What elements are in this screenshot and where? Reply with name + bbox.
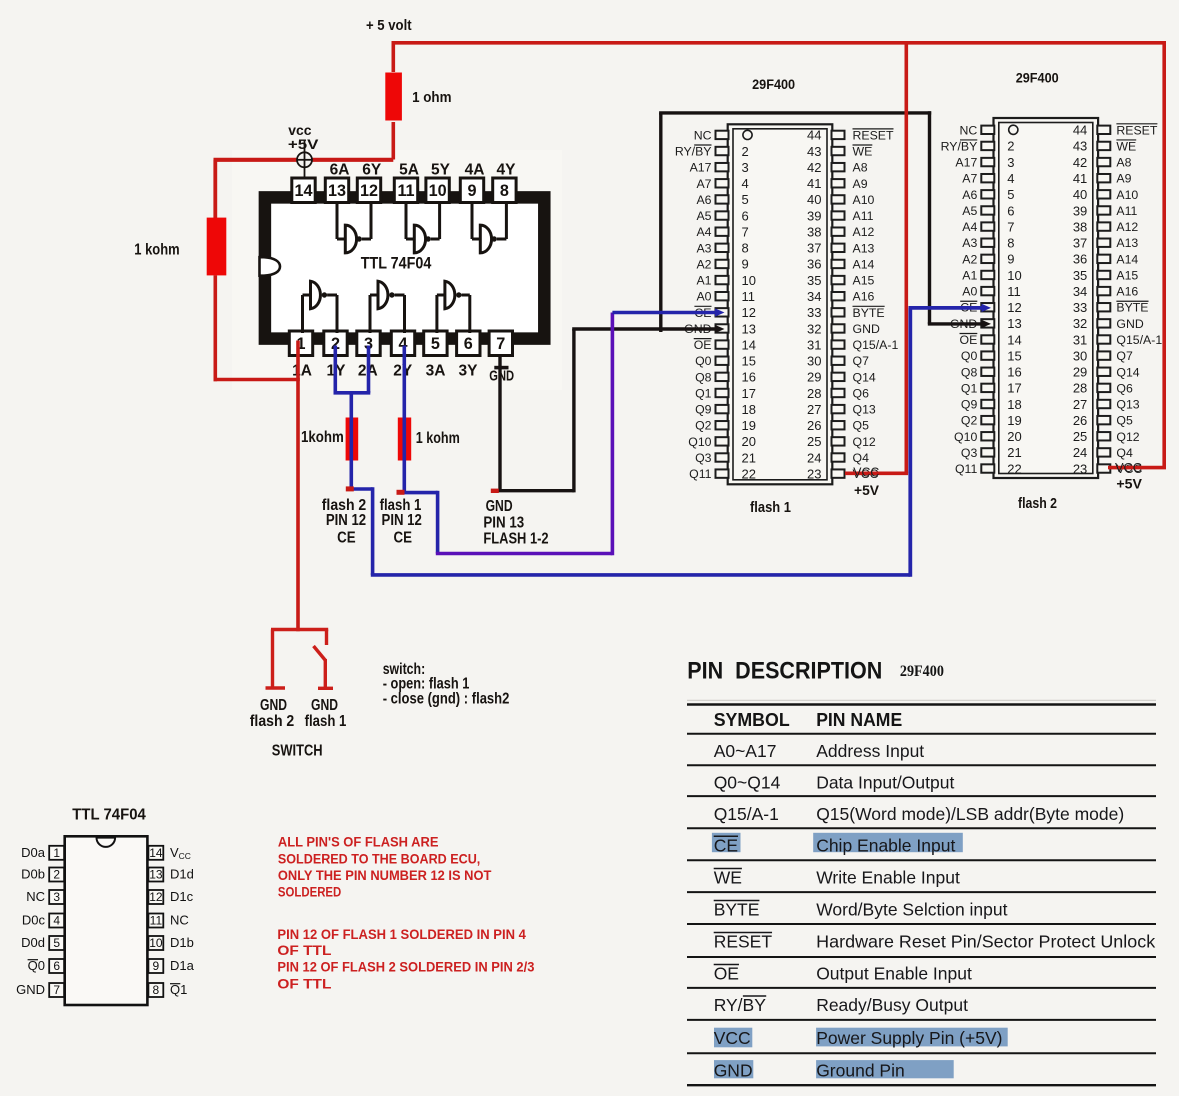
wire GND down right of flash1 — [928, 111, 931, 324]
svg-text:D0b: D0b — [21, 867, 45, 882]
svg-text:21: 21 — [1007, 445, 1021, 460]
svg-text:20: 20 — [1007, 429, 1021, 444]
svg-text:44: 44 — [1073, 123, 1087, 138]
svg-text:A1: A1 — [962, 268, 977, 282]
U1 bottom pin boxes — [289, 331, 512, 356]
resistor R4 1 kohm body — [398, 418, 411, 461]
svg-text:RESET: RESET — [714, 932, 773, 952]
svg-text:Hardware Reset Pin/Sector Prot: Hardware Reset Pin/Sector Protect Unlock — [816, 932, 1155, 952]
svg-text:TTL 74F04: TTL 74F04 — [361, 255, 432, 273]
svg-text:38: 38 — [807, 224, 821, 239]
svg-text:GND: GND — [1116, 317, 1143, 331]
U3 flash2 right pin numbers 44-23 — [1073, 123, 1087, 477]
svg-text:A15: A15 — [1116, 268, 1138, 282]
svg-text:7: 7 — [742, 224, 749, 239]
svg-text:29F400: 29F400 — [752, 76, 795, 92]
svg-text:13: 13 — [1007, 316, 1021, 331]
svg-text:26: 26 — [1073, 413, 1087, 428]
svg-text:Q15/A-1: Q15/A-1 — [714, 804, 779, 824]
svg-text:20: 20 — [742, 434, 756, 449]
svg-text:Q5: Q5 — [1116, 414, 1133, 428]
label GND flash 1 — [305, 697, 347, 730]
svg-text:A17: A17 — [690, 161, 712, 175]
svg-text:A0: A0 — [696, 290, 711, 304]
svg-text:A4: A4 — [696, 225, 711, 239]
U2 flash1 right pin boxes — [832, 131, 845, 478]
svg-text:Q0: Q0 — [28, 958, 45, 973]
wire flash2-CE down — [371, 487, 375, 575]
U1 top pin numbers 14-8 — [294, 182, 508, 200]
wire flash1-CE horizontal jog — [404, 491, 437, 495]
svg-text:24: 24 — [1073, 445, 1087, 460]
wire flash2-CE horizontal jog — [351, 487, 372, 491]
svg-text:Q12: Q12 — [853, 435, 876, 449]
svg-text:A7: A7 — [696, 177, 711, 191]
svg-text:VCC: VCC — [853, 465, 879, 480]
wire TTL pin2 down — [333, 346, 337, 393]
svg-text:Q14: Q14 — [853, 370, 876, 384]
svg-text:SWITCH: SWITCH — [272, 743, 323, 760]
wire TTL pin7 GND down — [498, 356, 501, 491]
svg-text:27: 27 — [1073, 397, 1087, 412]
svg-text:18: 18 — [742, 402, 756, 417]
svg-text:Q15/A-1: Q15/A-1 — [853, 338, 899, 352]
svg-text:OE: OE — [714, 964, 739, 984]
node red tick flash2-CE — [346, 486, 354, 491]
svg-text:13: 13 — [742, 321, 756, 336]
U4 body — [65, 836, 148, 1005]
svg-text:19: 19 — [742, 418, 756, 433]
wire +5V into R1 — [391, 43, 395, 72]
svg-text:A3: A3 — [696, 241, 711, 255]
svg-text:A9: A9 — [1116, 172, 1131, 186]
svg-text:28: 28 — [807, 386, 821, 401]
table header SYMBOL PIN NAME — [714, 710, 903, 730]
svg-text:CE: CE — [337, 530, 356, 547]
svg-text:Word/Byte Selction input: Word/Byte Selction input — [816, 900, 1007, 920]
svg-text:Chip Enable Input: Chip Enable Input — [816, 835, 955, 855]
svg-text:D0c: D0c — [22, 913, 46, 928]
svg-text:30: 30 — [807, 354, 821, 369]
U2 flash1 inner body — [733, 129, 827, 480]
wire join down through R3 — [349, 393, 353, 489]
svg-text:BYTE: BYTE — [1116, 301, 1148, 315]
svg-text:OF TTL: OF TTL — [277, 976, 331, 991]
svg-text:32: 32 — [1073, 316, 1087, 331]
table highlight GND row — [714, 1060, 753, 1078]
wire down to switch — [296, 380, 300, 632]
svg-text:11: 11 — [150, 914, 163, 928]
U4 right pin labels — [170, 845, 195, 997]
svg-text:12: 12 — [149, 890, 163, 904]
svg-text:12: 12 — [1007, 300, 1021, 315]
svg-text:2: 2 — [53, 868, 60, 882]
svg-text:34: 34 — [807, 289, 821, 304]
svg-text:NC: NC — [694, 128, 712, 142]
svg-text:A11: A11 — [853, 209, 874, 223]
svg-text:5: 5 — [431, 335, 440, 353]
svg-text:OE: OE — [694, 338, 712, 352]
svg-text:Q14: Q14 — [1116, 365, 1139, 379]
svg-text:Ground Pin: Ground Pin — [816, 1061, 905, 1081]
svg-text:18: 18 — [1007, 397, 1021, 412]
svg-text:Q11: Q11 — [689, 467, 711, 481]
U4 Q1 overline — [170, 983, 180, 985]
svg-text:34: 34 — [1073, 284, 1087, 299]
U2 flash1 right pin numbers 44-23 — [807, 128, 821, 482]
svg-text:30: 30 — [1073, 348, 1087, 363]
wire flash2-CE long horizontal — [371, 573, 911, 577]
svg-text:23: 23 — [1073, 461, 1087, 476]
wire flash1-CE up purple — [611, 313, 615, 556]
svg-text:flash 1: flash 1 — [750, 500, 791, 516]
svg-text:A2: A2 — [696, 257, 711, 271]
svg-text:2: 2 — [742, 144, 749, 159]
svg-text:SOLDERED: SOLDERED — [278, 884, 342, 899]
svg-text:10: 10 — [742, 273, 756, 288]
svg-text:CE: CE — [714, 835, 738, 855]
svg-text:31: 31 — [1073, 332, 1087, 347]
svg-text:WE: WE — [1116, 139, 1136, 153]
svg-text:CE: CE — [394, 530, 413, 547]
U2 flash1 left pin labels — [675, 128, 712, 481]
svg-text:A10: A10 — [1116, 188, 1138, 202]
wire R1 down — [391, 122, 395, 160]
svg-text:Data Input/Output: Data Input/Output — [816, 772, 954, 792]
svg-text:Q1: Q1 — [695, 386, 712, 400]
svg-text:GND: GND — [260, 697, 287, 714]
U4 notch — [97, 838, 116, 847]
U2 flash1 pin 1 index circle — [743, 130, 752, 139]
wire VCC flash1 vertical — [904, 43, 908, 474]
svg-text:A5: A5 — [962, 204, 977, 218]
svg-text:A10: A10 — [853, 193, 875, 207]
svg-text:Ready/Busy Output: Ready/Busy Output — [816, 995, 968, 1015]
svg-text:SYMBOL: SYMBOL — [714, 710, 790, 730]
svg-text:35: 35 — [807, 273, 821, 288]
svg-text:A16: A16 — [1116, 285, 1138, 299]
svg-text:GND: GND — [489, 368, 514, 385]
svg-text:flash 1: flash 1 — [305, 713, 347, 730]
svg-text:43: 43 — [807, 144, 821, 159]
svg-text:A3: A3 — [962, 236, 977, 250]
IC U3 flash2 29F400 outer body — [994, 118, 1099, 478]
svg-text:9: 9 — [1007, 252, 1014, 267]
svg-text:37: 37 — [807, 241, 821, 256]
svg-text:26: 26 — [807, 418, 821, 433]
table rules — [687, 734, 1156, 1054]
svg-text:35: 35 — [1073, 268, 1087, 283]
svg-text:Q1: Q1 — [170, 982, 187, 997]
svg-text:A13: A13 — [853, 241, 875, 255]
svg-text:4: 4 — [1007, 171, 1014, 186]
table highlight VCC row — [714, 1028, 752, 1048]
svg-text:Q15/A-1: Q15/A-1 — [1116, 333, 1162, 347]
svg-text:VCC: VCC — [714, 1028, 751, 1048]
svg-text:GND: GND — [311, 697, 338, 714]
svg-text:39: 39 — [807, 208, 821, 223]
svg-text:+ 5 volt: + 5 volt — [366, 17, 412, 34]
svg-text:Q2: Q2 — [695, 419, 712, 433]
svg-text:14: 14 — [1007, 332, 1021, 347]
svg-text:D0a: D0a — [21, 845, 46, 860]
svg-text:GND: GND — [714, 1061, 753, 1081]
svg-text:15: 15 — [1007, 348, 1021, 363]
svg-text:5: 5 — [1007, 187, 1014, 202]
svg-text:ALL PIN'S OF FLASH ARE: ALL PIN'S OF FLASH ARE — [278, 835, 439, 850]
svg-text:Q8: Q8 — [961, 365, 978, 379]
svg-text:A9: A9 — [853, 177, 868, 191]
svg-text:Q3: Q3 — [961, 446, 978, 460]
svg-text:A4: A4 — [962, 220, 977, 234]
table symbol overlines — [714, 836, 772, 996]
svg-text:5: 5 — [742, 192, 749, 207]
svg-text:42: 42 — [1073, 155, 1087, 170]
U1 inverter gate bottom 3 — [437, 281, 470, 333]
svg-text:14: 14 — [149, 846, 163, 860]
U4 right pin numbers 14-8 — [149, 846, 163, 997]
svg-text:5Y: 5Y — [431, 162, 451, 179]
svg-text:17: 17 — [1007, 381, 1021, 396]
U4 left pin labels — [16, 845, 46, 997]
U1 bottom pin numbers 1-7 — [296, 335, 505, 353]
wire GND up segment — [572, 329, 575, 492]
svg-text:+5V: +5V — [288, 136, 319, 152]
svg-text:A14: A14 — [1116, 252, 1138, 266]
wire +5V top horizontal — [392, 41, 1167, 45]
U1 inverter gate top 2 — [406, 203, 440, 253]
wire R2 down — [214, 275, 218, 381]
U1 inverter gate top 3 — [472, 203, 506, 253]
svg-text:29: 29 — [807, 370, 821, 385]
svg-text:2: 2 — [1007, 139, 1014, 154]
svg-text:Q13: Q13 — [853, 403, 876, 417]
svg-text:PIN 12: PIN 12 — [326, 512, 366, 529]
svg-text:Q4: Q4 — [1116, 446, 1133, 460]
svg-text:1A: 1A — [292, 363, 312, 380]
svg-text:12: 12 — [360, 182, 378, 200]
svg-text:Q1: Q1 — [961, 381, 978, 395]
svg-text:15: 15 — [742, 354, 756, 369]
svg-text:+5V: +5V — [1116, 477, 1142, 492]
svg-text:PIN 12 OF FLASH 1 SOLDERED IN: PIN 12 OF FLASH 1 SOLDERED IN PIN 4 — [277, 927, 526, 942]
svg-text:39: 39 — [1073, 203, 1087, 218]
svg-text:ONLY THE PIN NUMBER 12 IS NOT: ONLY THE PIN NUMBER 12 IS NOT — [278, 868, 492, 883]
svg-text:D1c: D1c — [170, 889, 194, 904]
svg-text:9: 9 — [742, 257, 749, 272]
svg-text:- close (gnd) : flash2: - close (gnd) : flash2 — [383, 691, 510, 708]
U3 flash2 inner body — [999, 123, 1093, 474]
svg-text:3A: 3A — [426, 363, 446, 380]
svg-text:A6: A6 — [696, 193, 711, 207]
node red tick flash1-CE — [397, 490, 405, 495]
svg-text:7: 7 — [53, 983, 60, 997]
U3 flash2 right pin labels — [1116, 123, 1162, 476]
svg-text:6: 6 — [53, 959, 60, 973]
svg-text:Q0~Q14: Q0~Q14 — [714, 772, 781, 792]
svg-text:Q0: Q0 — [961, 349, 978, 363]
U2 flash1 right pin labels — [853, 128, 899, 481]
svg-text:10: 10 — [429, 182, 447, 200]
svg-text:27: 27 — [807, 402, 821, 417]
svg-text:5A: 5A — [399, 162, 419, 179]
U1 inverter gate top 1 — [337, 203, 371, 253]
svg-text:1kohm: 1kohm — [301, 429, 344, 446]
svg-text:8: 8 — [500, 182, 509, 200]
svg-text:42: 42 — [807, 160, 821, 175]
U1 notch — [260, 257, 281, 276]
svg-text:Q3: Q3 — [695, 451, 712, 465]
svg-text:A13: A13 — [1116, 236, 1138, 250]
svg-text:29F400: 29F400 — [1016, 70, 1059, 86]
svg-text:Q15(Word mode)/LSB addr(Byte m: Q15(Word mode)/LSB addr(Byte mode) — [816, 804, 1124, 824]
U2 flash1 left label overlines — [694, 145, 712, 339]
svg-text:29: 29 — [1073, 365, 1087, 380]
resistor R3 1kohm body — [346, 418, 359, 461]
svg-text:Q13: Q13 — [1116, 398, 1139, 412]
U4 left pin numbers 1-7 — [53, 846, 60, 997]
svg-text:22: 22 — [1007, 461, 1021, 476]
wire vcc node horizontal — [214, 158, 394, 162]
wire GND into flash1 pin13 — [572, 327, 716, 330]
IC U1 TTL 74F04 body — [265, 197, 544, 338]
svg-text:41: 41 — [807, 176, 821, 191]
svg-text:6Y: 6Y — [362, 162, 382, 179]
svg-text:A0~A17: A0~A17 — [714, 741, 777, 761]
wire TTL pin4 down through R4 — [402, 346, 406, 493]
svg-text:43: 43 — [1073, 139, 1087, 154]
svg-text:FLASH 1-2: FLASH 1-2 — [483, 531, 548, 548]
U3 flash2 pin 1 index circle — [1009, 125, 1018, 134]
svg-text:6: 6 — [1007, 203, 1014, 218]
label GND flash 2 — [250, 697, 295, 730]
wire VCC flash1 horizontal — [845, 471, 908, 475]
label GND PIN 13 FLASH 1-2 — [483, 498, 548, 548]
svg-text:6: 6 — [742, 208, 749, 223]
svg-text:A6: A6 — [962, 188, 977, 202]
svg-text:Q7: Q7 — [1116, 349, 1133, 363]
svg-text:14: 14 — [294, 182, 312, 200]
svg-text:13: 13 — [149, 868, 163, 882]
svg-text:11: 11 — [742, 289, 756, 304]
U1 bottom pin labels 1A 1Y 2A 2Y 3A 3Y — [292, 363, 478, 380]
svg-text:flash 2: flash 2 — [250, 713, 295, 730]
svg-text:PIN 12 OF FLASH 2 SOLDERED IN: PIN 12 OF FLASH 2 SOLDERED IN PIN 2/3 — [277, 960, 534, 975]
svg-text:25: 25 — [1073, 429, 1087, 444]
svg-text:RY/BY: RY/BY — [675, 145, 712, 159]
svg-text:4: 4 — [53, 914, 60, 928]
svg-text:33: 33 — [1073, 300, 1087, 315]
svg-text:D1d: D1d — [170, 867, 194, 882]
svg-text:40: 40 — [807, 192, 821, 207]
svg-text:1 kohm: 1 kohm — [416, 430, 460, 447]
svg-text:Q5: Q5 — [853, 419, 870, 433]
wire to TTL pin1 horizontal — [214, 378, 300, 382]
svg-text:Q4: Q4 — [853, 451, 870, 465]
svg-text:3: 3 — [742, 160, 749, 175]
svg-text:5: 5 — [53, 936, 60, 950]
svg-text:TTL 74F04: TTL 74F04 — [72, 807, 146, 824]
svg-text:RY/BY: RY/BY — [941, 139, 978, 153]
svg-text:36: 36 — [1073, 252, 1087, 267]
svg-text:3: 3 — [53, 890, 60, 904]
U3 flash2 left pin labels — [941, 123, 978, 476]
svg-text:3: 3 — [1007, 155, 1014, 170]
svg-text:Q9: Q9 — [961, 398, 978, 412]
svg-text:A2: A2 — [962, 252, 977, 266]
svg-text:A0: A0 — [962, 285, 977, 299]
svg-text:38: 38 — [1073, 219, 1087, 234]
svg-text:4Y: 4Y — [497, 162, 517, 179]
svg-text:A7: A7 — [962, 172, 977, 186]
svg-text:VCC: VCC — [1115, 460, 1142, 475]
svg-text:Write Enable Input: Write Enable Input — [816, 868, 960, 888]
svg-text:29F400: 29F400 — [900, 663, 944, 680]
svg-text:13: 13 — [328, 182, 346, 200]
svg-text:RESET: RESET — [1116, 123, 1157, 137]
svg-text:A8: A8 — [853, 161, 868, 175]
U3 flash2 left pin numbers 2-22 — [1007, 139, 1021, 477]
svg-text:Address Input: Address Input — [816, 741, 924, 761]
wire flash1-CE horizontal purple — [436, 552, 613, 556]
svg-text:OE: OE — [960, 333, 978, 347]
svg-text:14: 14 — [742, 337, 756, 352]
svg-text:+5V: +5V — [854, 483, 879, 498]
label flash 1 PIN 12 CE — [380, 497, 422, 547]
U4 left pin boxes — [49, 846, 64, 997]
svg-text:WE: WE — [853, 145, 873, 159]
svg-text:D1b: D1b — [170, 935, 194, 950]
table rule top double — [687, 699, 1156, 701]
svg-text:A11: A11 — [1116, 204, 1137, 218]
svg-text:3Y: 3Y — [459, 363, 479, 380]
label switch explanation — [383, 661, 510, 708]
svg-text:16: 16 — [742, 370, 756, 385]
svg-text:10: 10 — [149, 936, 163, 950]
label flash 2 PIN 12 CE — [322, 497, 367, 547]
wire flash2-CE into pin12 — [909, 306, 983, 310]
svg-text:Q10: Q10 — [954, 430, 977, 444]
U2 flash1 left pin boxes — [716, 131, 729, 478]
svg-text:9: 9 — [467, 182, 476, 200]
svg-text:6: 6 — [464, 335, 473, 353]
svg-text:PIN 12: PIN 12 — [382, 512, 422, 529]
svg-text:A8: A8 — [1116, 156, 1131, 170]
svg-text:Q9: Q9 — [695, 403, 712, 417]
svg-text:GND: GND — [486, 498, 513, 515]
svg-text:GND: GND — [853, 322, 880, 336]
svg-text:BYTE: BYTE — [714, 900, 760, 920]
svg-text:Q6: Q6 — [1116, 381, 1133, 395]
svg-text:1 ohm: 1 ohm — [412, 89, 451, 106]
svg-text:19: 19 — [1007, 413, 1021, 428]
svg-text:RY/BY: RY/BY — [714, 995, 767, 1015]
svg-text:9: 9 — [153, 959, 160, 973]
table highlight CE row — [712, 833, 741, 852]
wire TTL pin3 down — [367, 346, 371, 393]
svg-text:1: 1 — [53, 846, 60, 860]
U1 inverter gate bottom 2 — [370, 281, 405, 333]
svg-text:A16: A16 — [853, 290, 875, 304]
svg-text:8: 8 — [153, 983, 160, 997]
svg-text:8: 8 — [1007, 236, 1014, 251]
svg-text:NC: NC — [960, 123, 978, 137]
svg-text:28: 28 — [1073, 381, 1087, 396]
svg-text:22: 22 — [742, 466, 756, 481]
svg-text:A14: A14 — [853, 257, 875, 271]
svg-text:36: 36 — [807, 257, 821, 272]
svg-text:PIN NAME: PIN NAME — [816, 710, 902, 730]
